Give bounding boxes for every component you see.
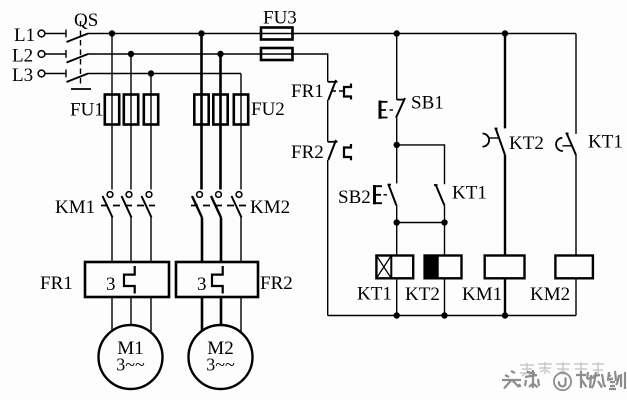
svg-text:KM1: KM1 bbox=[55, 197, 95, 218]
wire M2 U to FR2 bbox=[201, 218, 204, 263]
contactor KM1 pole2 bbox=[122, 192, 132, 218]
switch QS pole2 blade bbox=[67, 54, 89, 63]
wire node to KT1 contact branch bbox=[397, 145, 445, 184]
fuse FU3 pole1 wire bbox=[261, 33, 293, 35]
contactor KM1 pole1 bbox=[103, 192, 113, 218]
svg-text:FU3: FU3 bbox=[263, 8, 297, 29]
svg-text:FU2: FU2 bbox=[251, 99, 285, 120]
wire SB2 branch bbox=[396, 145, 398, 184]
wire M1 phase W drop bbox=[150, 74, 152, 190]
wire L2 to QS bbox=[45, 53, 66, 55]
motor M1 circle bbox=[99, 325, 163, 389]
node SB2 bottom bbox=[394, 219, 400, 225]
node SB1 branch top bbox=[394, 30, 400, 36]
node L1-M2 branch bbox=[198, 30, 204, 36]
wire KM1 coil bottom bbox=[504, 278, 506, 315]
wire control top bus bbox=[293, 33, 577, 35]
fuse FU1 pole3 bbox=[144, 95, 158, 125]
wire SB1 branch bbox=[396, 34, 398, 100]
wire M1 U lead bbox=[111, 297, 113, 340]
svg-text:FU1: FU1 bbox=[70, 100, 104, 121]
svg-text:L3: L3 bbox=[12, 65, 33, 86]
fuse FU2 pole3 bbox=[234, 95, 248, 125]
wire L3 to QS bbox=[45, 73, 66, 75]
fuse FU1 pole2 wire bbox=[130, 95, 132, 125]
wire M2 V to FR2 bbox=[220, 218, 223, 263]
wire L2 bus bbox=[88, 53, 262, 55]
svg-text:KT2: KT2 bbox=[405, 284, 440, 305]
svg-text:3: 3 bbox=[106, 274, 116, 295]
svg-text:KT1: KT1 bbox=[452, 183, 487, 204]
wire KM2 coil bottom bbox=[575, 278, 577, 315]
fuse FU2 pole3 wire bbox=[240, 95, 242, 125]
svg-text:KT1: KT1 bbox=[588, 132, 623, 153]
contactor KM2 pole2 bbox=[211, 192, 221, 218]
timed contact KT1 bbox=[556, 133, 576, 155]
fuse FU3 pole2 bbox=[261, 48, 293, 60]
thermal relay FR1 box bbox=[85, 262, 169, 297]
fuse FU3 pole1 bbox=[261, 28, 293, 40]
node KM1 coil bottom bbox=[502, 312, 508, 318]
node KT1 bottom bbox=[441, 219, 447, 225]
relay contact KT1 NO bbox=[434, 185, 444, 205]
wire bottom bus bbox=[328, 315, 576, 317]
terminal L2 bbox=[38, 51, 45, 58]
wire M2 W to FR2 bbox=[240, 218, 242, 263]
wire L1 bus bbox=[88, 33, 262, 35]
wire KM2 riser top bbox=[575, 34, 577, 134]
wire SB1 to node bbox=[396, 118, 398, 145]
wire KT1 contact to KM2 coil bbox=[575, 155, 577, 256]
node L2-M2 branch bbox=[217, 51, 223, 57]
node KT2 coil bottom bbox=[441, 312, 447, 318]
contactor KM1 pole3 bbox=[142, 192, 152, 218]
terminal L1 bbox=[38, 30, 45, 37]
contactor KM2 pole1 bbox=[192, 192, 202, 218]
svg-text:KM1: KM1 bbox=[462, 284, 502, 305]
watermark ghost bbox=[520, 362, 604, 376]
switch QS pole1 blade bbox=[67, 34, 89, 43]
wire FR1 to FR2 bbox=[327, 100, 329, 142]
coil KM2 bbox=[555, 256, 593, 279]
wire KT2 contact to KM1 coil bbox=[504, 155, 506, 256]
wire M1 U to FR1 bbox=[111, 218, 113, 263]
svg-text:QS: QS bbox=[74, 10, 98, 31]
thermal relay FR2 box bbox=[176, 262, 258, 297]
watermark text bbox=[502, 370, 625, 390]
fuse FU1 pole2 bbox=[124, 95, 138, 125]
wire M2 phase V drop bbox=[219, 54, 222, 190]
terminal L3 bbox=[38, 70, 45, 77]
switch QS pole1 contact tick bbox=[65, 30, 67, 38]
switch QS pole3 contact tick bbox=[65, 70, 67, 78]
wire M2 phase W drop bbox=[240, 74, 242, 190]
wire KT1 contact to node bbox=[444, 205, 446, 222]
node L1-M1 branch bbox=[109, 30, 115, 36]
fuse FU1 pole1 wire bbox=[111, 95, 113, 125]
pushbutton SB2 NO bbox=[375, 185, 397, 206]
timed contact KT2 bbox=[483, 129, 506, 156]
coil KM1 bbox=[485, 256, 525, 279]
wire L3 bus bbox=[88, 73, 241, 75]
svg-text:3: 3 bbox=[197, 274, 207, 295]
svg-text:L2: L2 bbox=[12, 46, 33, 67]
wire M1 W lead bbox=[150, 297, 152, 340]
svg-text:FR1: FR1 bbox=[40, 273, 73, 294]
svg-text:FR1: FR1 bbox=[291, 81, 324, 102]
svg-text:SB1: SB1 bbox=[411, 93, 444, 114]
svg-text:KM2: KM2 bbox=[250, 197, 290, 218]
node L2-M1 branch bbox=[128, 51, 134, 57]
thermal contact FR2 NC bbox=[328, 140, 351, 160]
wire KT1 coil top bbox=[396, 223, 398, 256]
wire KT2 coil bottom bbox=[444, 278, 446, 315]
thermal relay FR2 heater symbol bbox=[212, 266, 223, 294]
svg-text:FR2: FR2 bbox=[260, 273, 293, 294]
svg-text:KM2: KM2 bbox=[530, 284, 570, 305]
wire M2 phase U drop bbox=[200, 34, 203, 190]
svg-text:FR2: FR2 bbox=[291, 142, 324, 163]
svg-text:SB2: SB2 bbox=[338, 187, 371, 208]
fuse FU1 pole1 bbox=[105, 95, 119, 125]
node L3-M1 branch bbox=[148, 70, 154, 76]
wire L2 to control rail bbox=[293, 54, 328, 82]
wire KT2 coil top bbox=[444, 223, 446, 256]
contactor KM2 pole3 bbox=[232, 192, 242, 218]
contactor KM1 link dashed bbox=[101, 205, 155, 207]
wire M1 V lead bbox=[130, 297, 132, 340]
fuse FU3 pole2 wire bbox=[261, 53, 293, 55]
switch QS pole2 contact tick bbox=[65, 50, 67, 58]
pushbutton SB1 NC bbox=[380, 98, 405, 119]
contactor KM2 link dashed bbox=[191, 205, 246, 207]
svg-text:3~~: 3~~ bbox=[116, 355, 145, 375]
wire M2 W lead bbox=[240, 297, 242, 340]
svg-text:L1: L1 bbox=[14, 25, 35, 46]
wire KM1 riser top bbox=[504, 34, 506, 129]
wire M1 phase V drop bbox=[130, 54, 132, 190]
node KM1 branch top bbox=[502, 30, 508, 36]
node SB1 bottom bbox=[394, 142, 400, 148]
wire left rail down bbox=[327, 160, 329, 316]
wire KT1 coil bottom bbox=[396, 278, 398, 315]
fuse FU2 pole2 bbox=[213, 95, 227, 125]
svg-text:KT1: KT1 bbox=[357, 284, 392, 305]
wire M2 V lead bbox=[220, 297, 223, 340]
coil KT1 bbox=[376, 256, 413, 279]
coil KT2 bbox=[425, 256, 462, 279]
wire M1 V to FR1 bbox=[130, 218, 132, 263]
wire M1 phase U drop bbox=[111, 34, 113, 190]
wire node link bbox=[397, 222, 445, 224]
wire L1 to QS bbox=[45, 33, 66, 35]
motor M2 circle bbox=[189, 325, 253, 389]
fuse FU1 pole3 wire bbox=[150, 95, 152, 125]
switch QS handle bar bbox=[71, 88, 91, 90]
node KT1 coil bottom bbox=[394, 312, 400, 318]
wire M2 U lead bbox=[201, 297, 204, 340]
fuse FU2 pole2 wire bbox=[219, 95, 222, 125]
wire M1 W to FR1 bbox=[150, 218, 152, 263]
svg-text:3~~: 3~~ bbox=[206, 355, 235, 375]
wire SB2 to node bbox=[396, 205, 398, 222]
thermal relay FR1 heater symbol bbox=[124, 266, 135, 294]
fuse FU2 pole1 wire bbox=[200, 95, 203, 125]
thermal contact FR1 NC bbox=[328, 80, 351, 100]
fuse FU2 pole1 bbox=[194, 95, 208, 125]
switch QS mechanical link dashed bbox=[80, 21, 82, 87]
switch QS pole3 blade bbox=[67, 74, 89, 83]
svg-text:KT2: KT2 bbox=[509, 133, 544, 154]
